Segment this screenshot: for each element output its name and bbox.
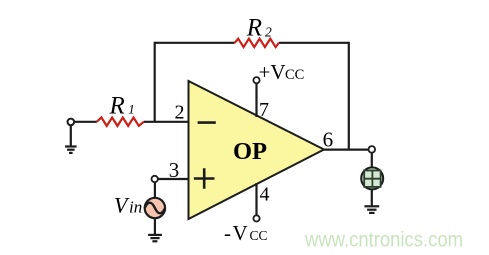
svg-text:1: 1 [128, 102, 135, 117]
op-amp OP [189, 81, 325, 219]
meter load [361, 167, 383, 189]
wire R1 to pin 2 [144, 121, 189, 123]
op-amp minus input mark [198, 121, 216, 124]
ground (Vin) [148, 235, 162, 241]
terminal -Vcc [253, 215, 259, 221]
wire pin 4 [255, 183, 257, 215]
svg-text:R: R [246, 15, 262, 42]
wire feedback top-left segment [155, 42, 235, 44]
svg-text:6: 6 [323, 128, 334, 152]
wire output [324, 149, 369, 151]
svg-text:CC: CC [285, 67, 304, 83]
svg-text:CC: CC [250, 228, 268, 243]
terminal output [369, 146, 376, 153]
svg-text:V: V [233, 221, 248, 245]
svg-text:4: 4 [260, 184, 270, 206]
source Vin sine [145, 203, 165, 214]
wire input terminal to R1 [74, 121, 97, 123]
wire meter to ground [371, 189, 373, 206]
wire pin 7 [255, 83, 257, 117]
svg-text:+V: +V [259, 60, 286, 84]
svg-text:in: in [129, 197, 142, 216]
source Vin [145, 198, 165, 218]
svg-text:2: 2 [175, 102, 185, 124]
resistor R1 [97, 118, 144, 126]
svg-text:www.cntronics.com: www.cntronics.com [304, 228, 463, 251]
wire feedback top-right segment [279, 42, 349, 44]
svg-text:7: 7 [259, 99, 269, 121]
svg-text:R: R [109, 93, 125, 120]
svg-text:OP: OP [233, 138, 267, 165]
resistor R2 [235, 39, 279, 47]
op-amp plus input mark [194, 168, 215, 189]
wire feedback right vertical [348, 42, 350, 150]
wire Vin to ground [154, 219, 156, 235]
ground (output) [364, 206, 379, 213]
wire output node to meter [371, 153, 373, 168]
wire pin3 [158, 178, 189, 180]
svg-text:-: - [224, 221, 231, 245]
terminal +Vcc [253, 77, 259, 83]
svg-text:2: 2 [265, 24, 272, 39]
wire feedback left vertical [154, 42, 156, 122]
wire pin3 node to Vin [154, 182, 156, 197]
terminal pin3 node [152, 176, 158, 182]
terminal input [68, 119, 75, 126]
ground (input) [65, 125, 77, 153]
meter grid [364, 171, 380, 187]
